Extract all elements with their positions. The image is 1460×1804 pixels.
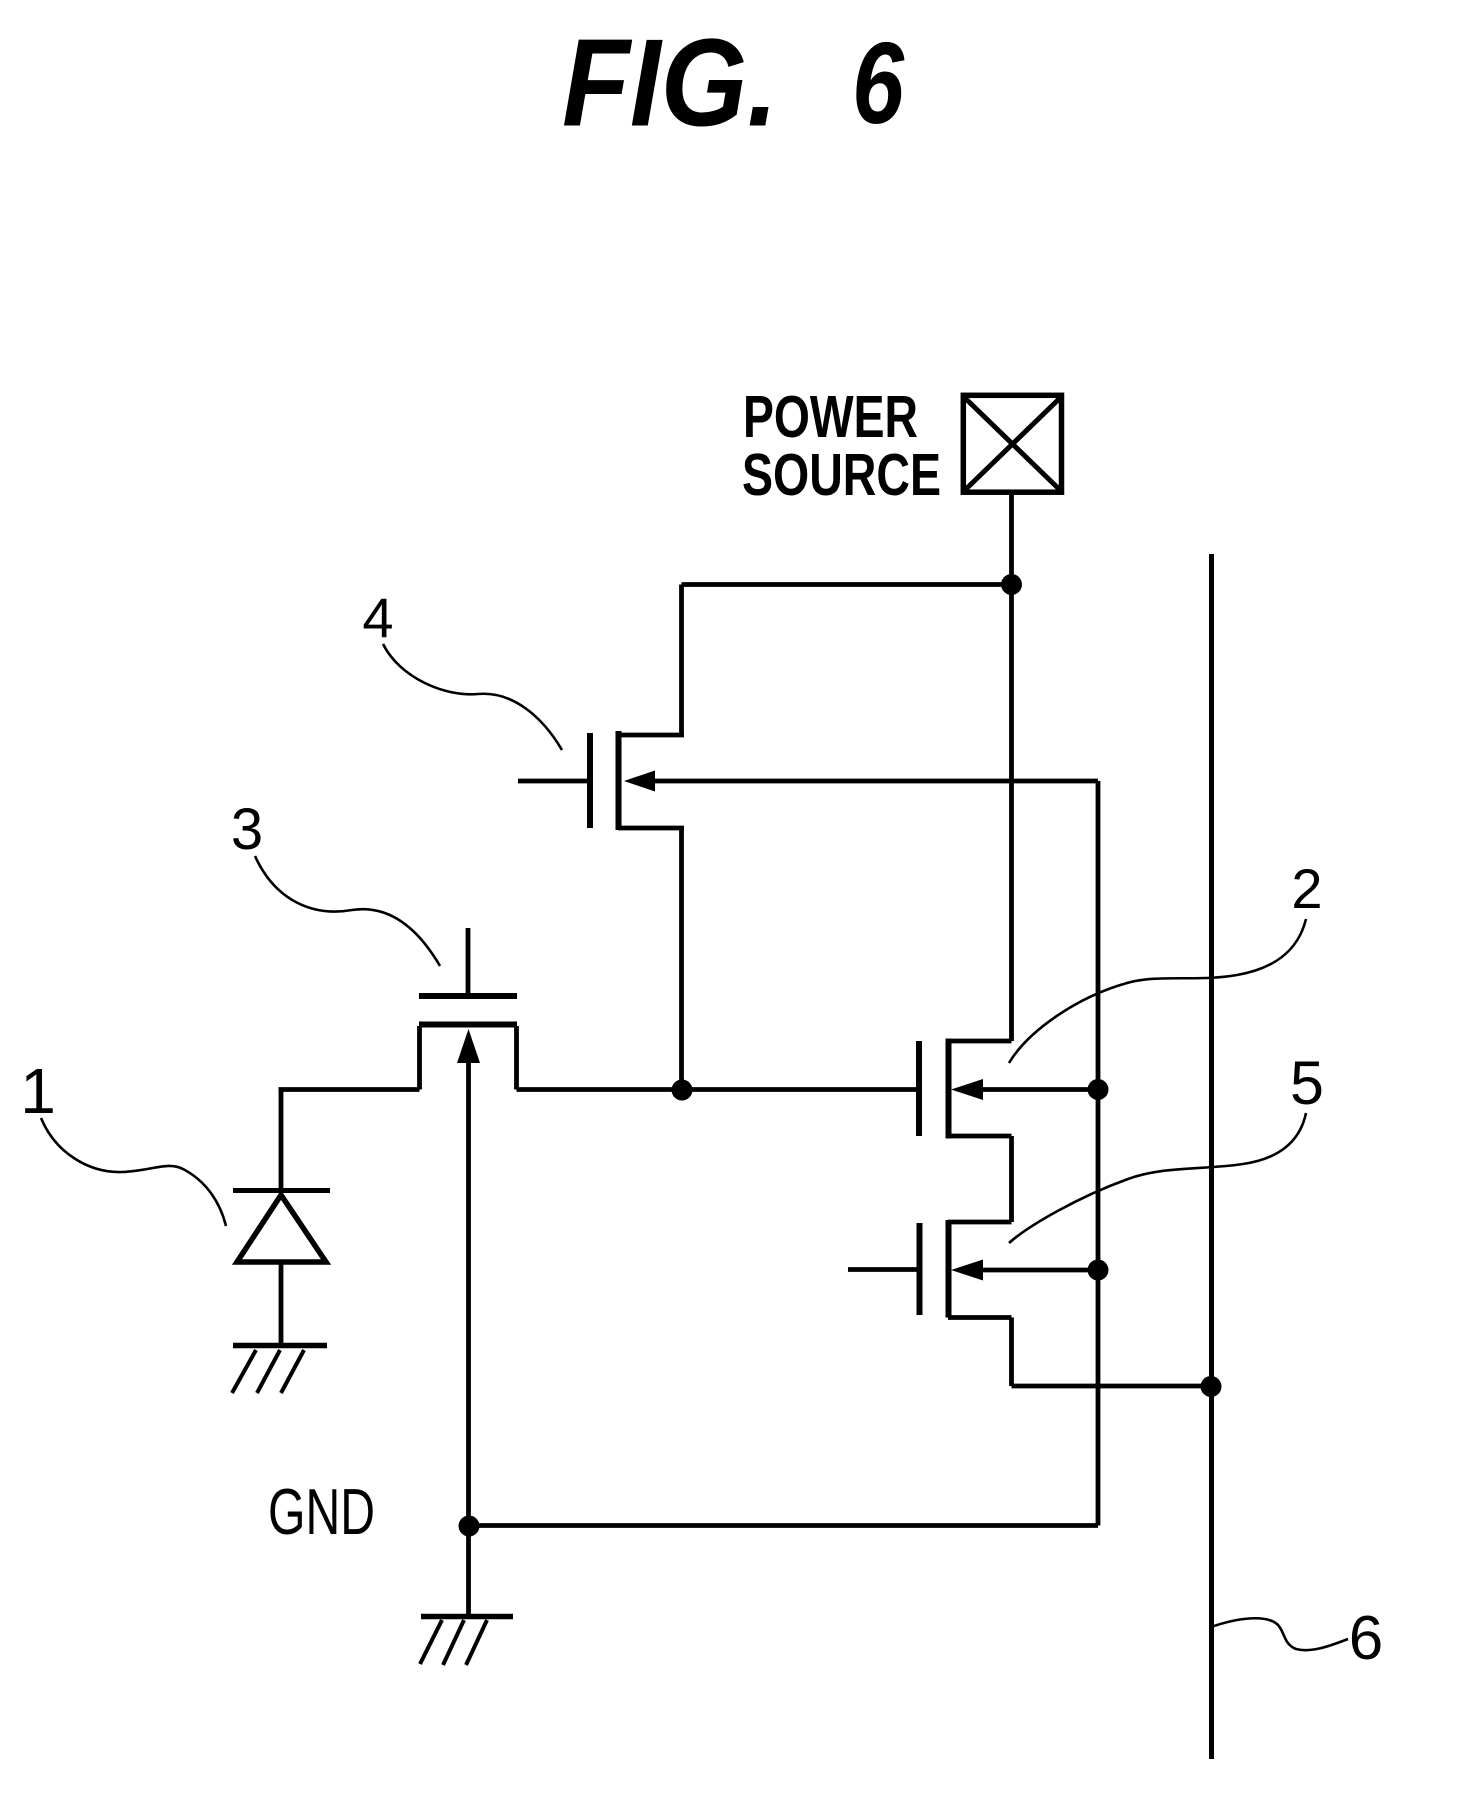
svg-text:GND: GND	[268, 1475, 375, 1548]
svg-text:POWER: POWER	[743, 384, 918, 450]
svg-text:FIG.: FIG.	[562, 15, 778, 153]
svg-text:6: 6	[852, 18, 905, 148]
svg-text:4: 4	[362, 586, 393, 649]
svg-text:3: 3	[231, 797, 263, 862]
svg-text:6: 6	[1349, 1604, 1383, 1673]
svg-text:SOURCE: SOURCE	[742, 442, 941, 508]
svg-text:2: 2	[1291, 857, 1322, 920]
svg-text:5: 5	[1290, 1049, 1324, 1117]
svg-text:1: 1	[20, 1055, 56, 1127]
